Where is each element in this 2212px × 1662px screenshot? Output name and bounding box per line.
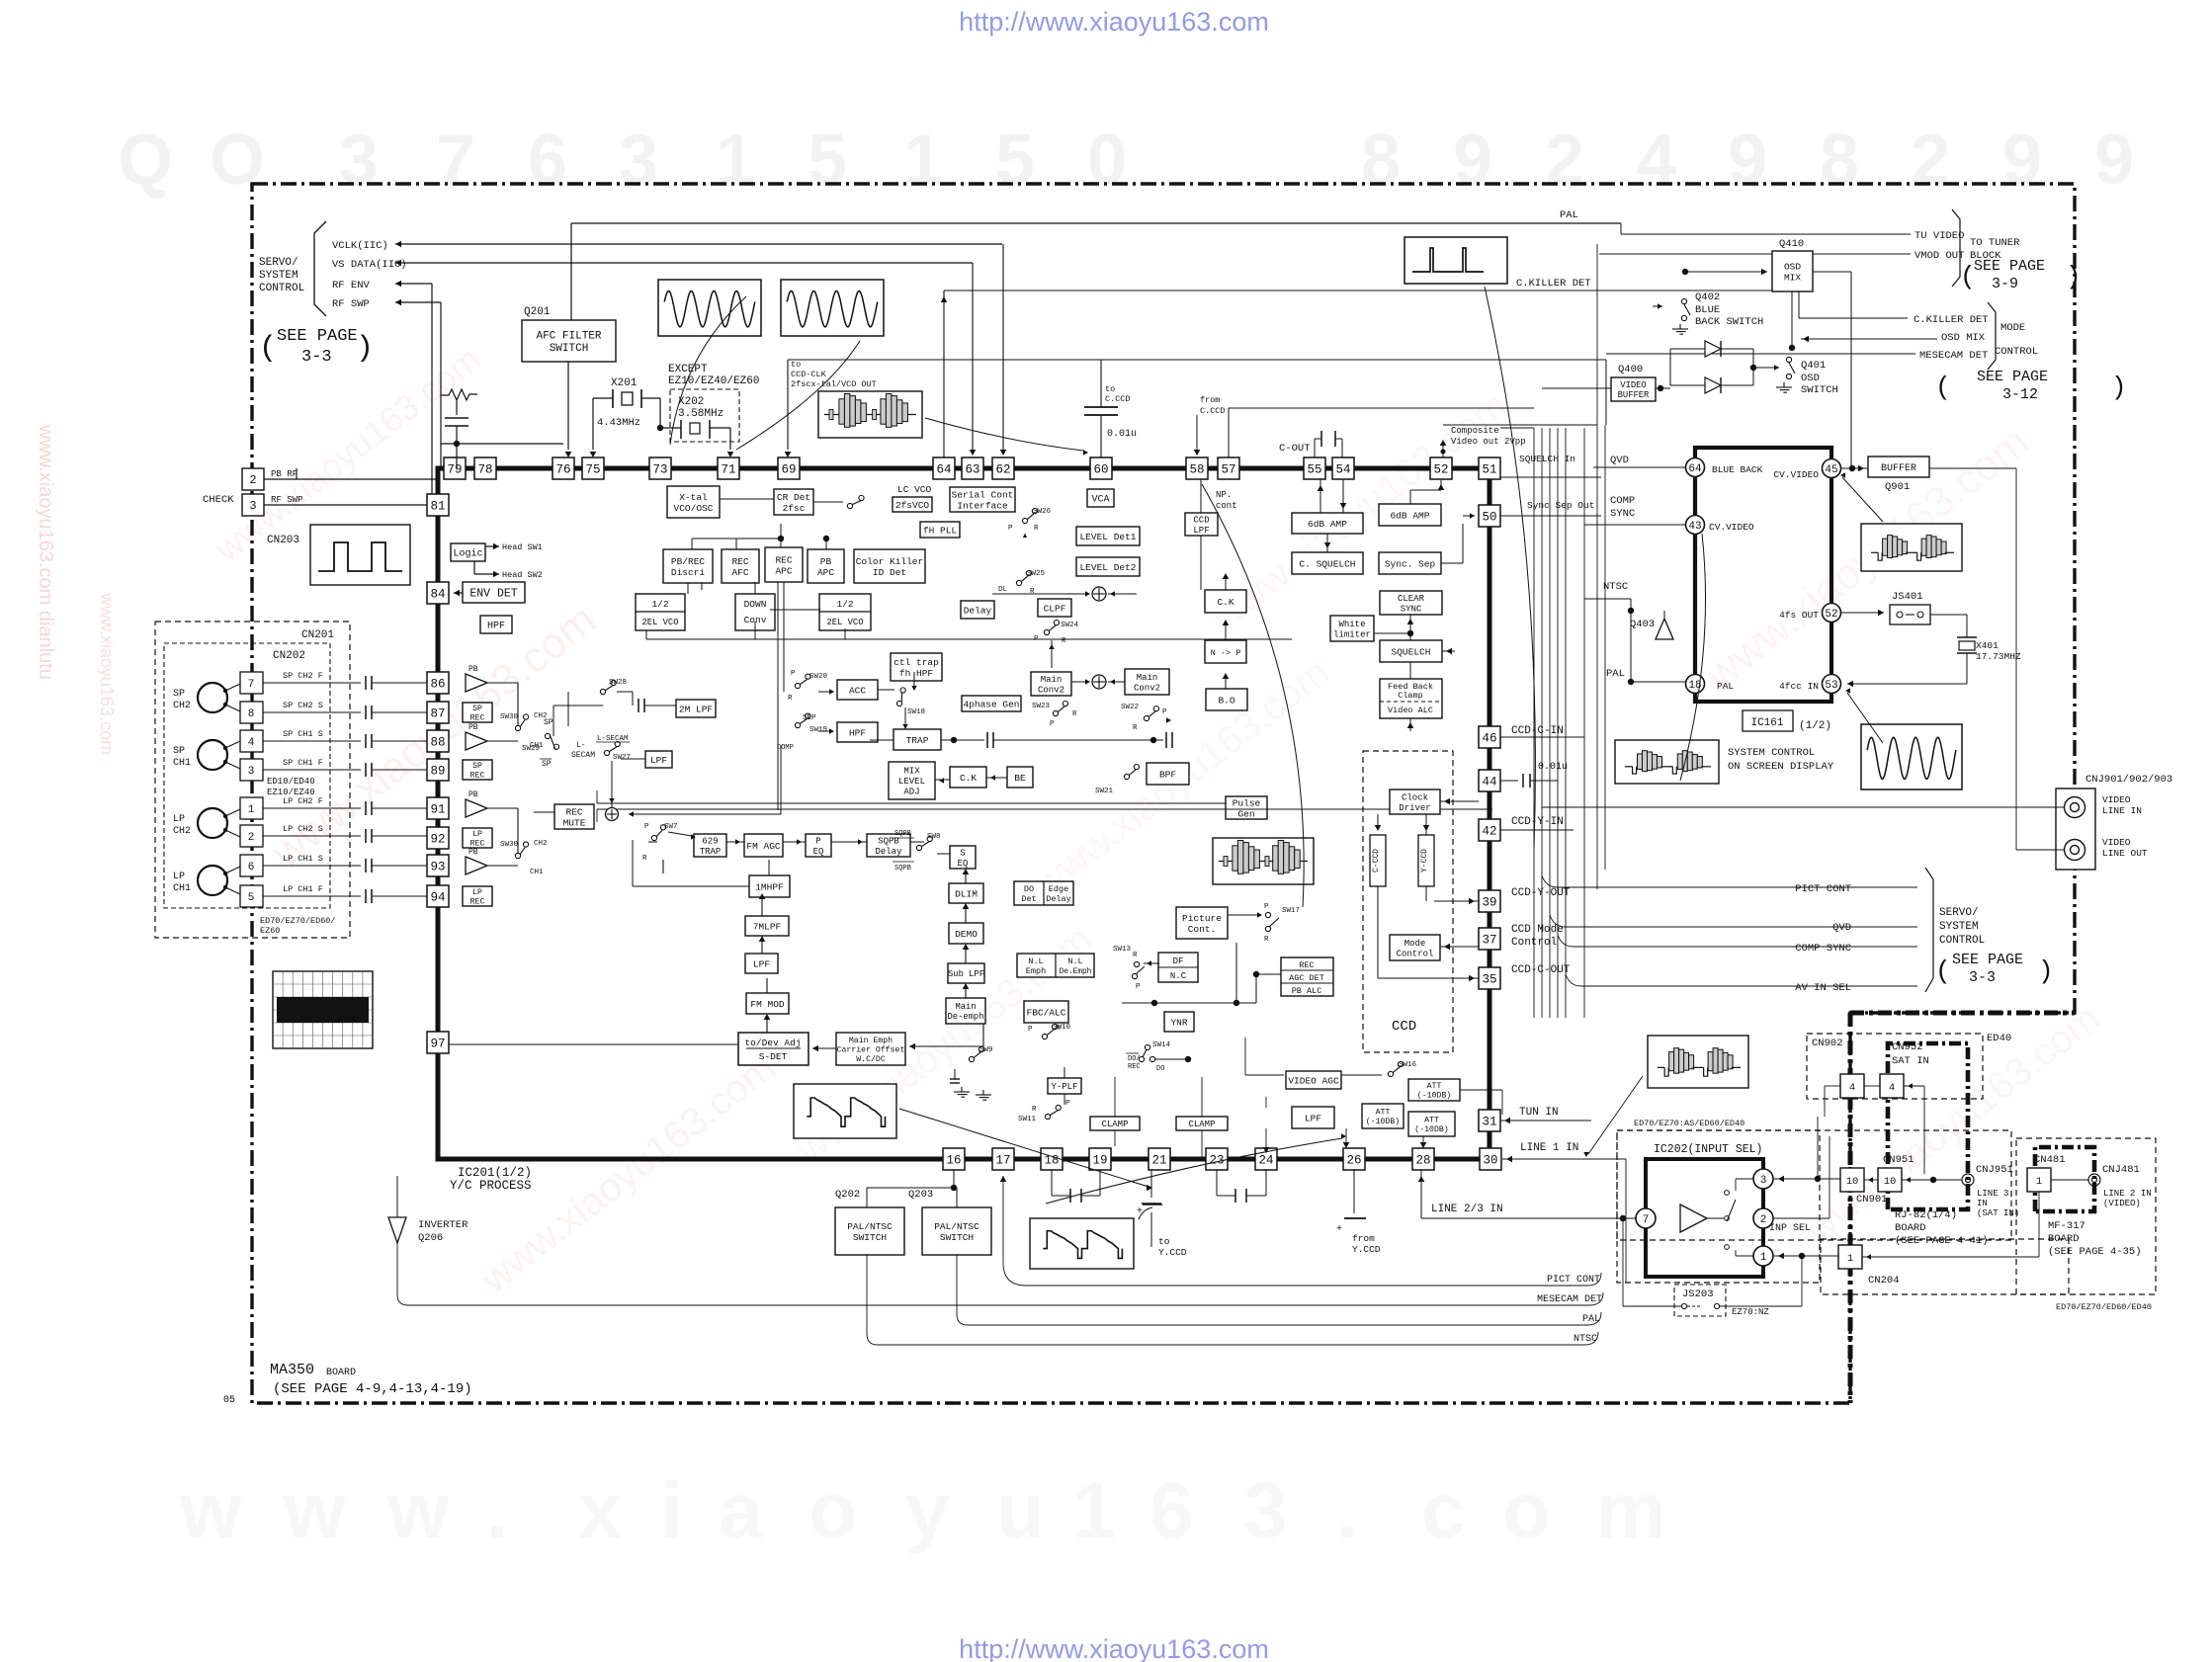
svg-text:P: P bbox=[644, 823, 649, 831]
svg-text:6dB AMP: 6dB AMP bbox=[1391, 510, 1430, 521]
svg-text:2M LPF: 2M LPF bbox=[679, 704, 714, 714]
svg-text:CCD: CCD bbox=[1392, 1019, 1416, 1035]
svg-text:BOARD: BOARD bbox=[2048, 1233, 2080, 1245]
svg-text:w: w bbox=[283, 1466, 346, 1554]
block ENV DET bbox=[463, 582, 525, 603]
svg-text:2: 2 bbox=[248, 832, 255, 844]
svg-text:SYSTEM CONTROL: SYSTEM CONTROL bbox=[1728, 747, 1815, 759]
conn pin 7 bbox=[240, 672, 263, 694]
svg-text:limiter: limiter bbox=[1333, 629, 1371, 639]
pin 23 bbox=[1206, 1148, 1228, 1170]
svg-text:R: R bbox=[788, 695, 793, 703]
svg-text:7: 7 bbox=[436, 121, 475, 200]
svg-text:Main Emph: Main Emph bbox=[849, 1036, 893, 1045]
svg-text:.: . bbox=[1336, 1466, 1358, 1554]
diagonal pointer to line1in bbox=[1588, 1076, 1643, 1154]
curved pointer to 71 bbox=[736, 341, 860, 450]
svg-text:SAT IN: SAT IN bbox=[1892, 1055, 1929, 1067]
block 1/2 2EL VCO b bbox=[819, 594, 871, 630]
block CCD LPF bbox=[1185, 513, 1218, 536]
svg-text:CH2: CH2 bbox=[534, 840, 548, 848]
block 629 TRAP bbox=[694, 834, 726, 857]
svg-text:to: to bbox=[1158, 1236, 1170, 1247]
svg-text:MESECAM DET: MESECAM DET bbox=[1919, 350, 1988, 362]
wire fhpll bbox=[910, 515, 912, 522]
svg-text:0.01u: 0.01u bbox=[1107, 429, 1137, 440]
svg-text:P: P bbox=[1065, 1100, 1070, 1108]
svg-text:79: 79 bbox=[447, 463, 462, 477]
wire row from X-tal to CR Det bbox=[720, 498, 774, 500]
svg-text:VIDEO: VIDEO bbox=[2102, 794, 2131, 805]
svg-text:SW21: SW21 bbox=[1095, 788, 1114, 795]
svg-text:86: 86 bbox=[430, 678, 445, 692]
block CLEAR SYNC bbox=[1380, 591, 1442, 615]
svg-text:CONTROL: CONTROL bbox=[1995, 346, 2038, 358]
svg-text:73: 73 bbox=[652, 463, 667, 477]
svg-text:42: 42 bbox=[1482, 825, 1496, 839]
svg-text:LC VCO: LC VCO bbox=[897, 484, 932, 495]
svg-text:CNJ901/902/903: CNJ901/902/903 bbox=[2085, 774, 2172, 786]
CN481 1 box bbox=[2027, 1168, 2051, 1192]
svg-text:Q: Q bbox=[118, 121, 173, 200]
block Main Conv2 2 bbox=[1125, 669, 1169, 695]
bracket servo/system control bbox=[314, 221, 326, 316]
svg-text:): ) bbox=[2111, 373, 2127, 402]
svg-text:1: 1 bbox=[1760, 1252, 1767, 1264]
wire sync sep to 50 bbox=[1441, 562, 1463, 564]
wires under 1/2 blocks bbox=[645, 630, 647, 639]
svg-text:SP: SP bbox=[544, 718, 553, 727]
switch SW24 bbox=[1044, 629, 1049, 634]
svg-text:LP CH1 F: LP CH1 F bbox=[283, 884, 323, 894]
block 1/2 2EL VCO a bbox=[636, 594, 685, 630]
block SP REC 1 bbox=[463, 703, 492, 722]
svg-text:ED40: ED40 bbox=[1987, 1033, 2011, 1044]
svg-text:LP: LP bbox=[472, 830, 482, 839]
svg-text:9: 9 bbox=[2094, 121, 2134, 200]
svg-text:RJ-82(1/4): RJ-82(1/4) bbox=[1895, 1209, 1957, 1221]
svg-text:3: 3 bbox=[339, 121, 379, 200]
pin 18 bbox=[1686, 675, 1705, 694]
block FM AGC bbox=[744, 834, 783, 857]
wire REC APC net bbox=[691, 539, 693, 549]
svg-text:CV.VIDEO: CV.VIDEO bbox=[1709, 522, 1754, 533]
svg-text:O: O bbox=[210, 121, 265, 200]
bar box W8 bbox=[1615, 740, 1719, 784]
svg-text:CN901: CN901 bbox=[1856, 1194, 1888, 1205]
svg-text:8: 8 bbox=[1361, 121, 1401, 200]
svg-text:REC: REC bbox=[470, 840, 485, 849]
svg-text:ED70/EZ70/ED60/: ED70/EZ70/ED60/ bbox=[260, 916, 336, 926]
diagonal from box to 21 bbox=[899, 1109, 1149, 1187]
pin 78 bbox=[474, 457, 496, 479]
svg-text:AFC: AFC bbox=[731, 567, 748, 578]
svg-text:Gen: Gen bbox=[1237, 808, 1254, 819]
svg-text:SW16: SW16 bbox=[1399, 1061, 1417, 1069]
svg-text:X401: X401 bbox=[1976, 640, 1999, 651]
wires Q202 Q203 to 16 bbox=[866, 1188, 868, 1207]
svg-text:CH1: CH1 bbox=[530, 869, 544, 876]
wire pin69 up bbox=[787, 360, 789, 450]
svg-text:(: ( bbox=[1935, 373, 1951, 402]
switch SW11 bbox=[1045, 1114, 1050, 1119]
svg-text:SQPB: SQPB bbox=[894, 865, 911, 873]
svg-text:TRAP: TRAP bbox=[906, 735, 929, 746]
svg-text:B.O: B.O bbox=[1218, 695, 1234, 706]
svg-text:C.KILLER DET: C.KILLER DET bbox=[1516, 278, 1591, 290]
pin 97 bbox=[427, 1032, 449, 1053]
svg-text:78: 78 bbox=[477, 463, 492, 477]
svg-text:SW13: SW13 bbox=[1113, 946, 1132, 954]
svg-text:4.43MHz: 4.43MHz bbox=[597, 417, 640, 429]
svg-text:CNJ481: CNJ481 bbox=[2102, 1164, 2140, 1176]
svg-text:94: 94 bbox=[430, 891, 445, 905]
switch SW23 bbox=[1053, 710, 1058, 715]
tun in wire from att bbox=[1460, 1089, 1502, 1091]
svg-text:9: 9 bbox=[2002, 121, 2042, 200]
long arc 1 bbox=[1202, 484, 1304, 907]
svg-text:5: 5 bbox=[808, 121, 847, 200]
switch SW10 bbox=[1042, 1034, 1047, 1039]
block ACC bbox=[837, 680, 878, 700]
block TRAP bbox=[893, 729, 941, 750]
block C.K 1 bbox=[950, 767, 986, 788]
svg-text:Q203: Q203 bbox=[908, 1189, 933, 1201]
svg-text:45: 45 bbox=[1825, 464, 1837, 476]
dashed box CN204/MF-317 bbox=[1821, 1239, 2069, 1294]
block NL Emph NL DeEmph bbox=[1017, 954, 1094, 977]
svg-text:93: 93 bbox=[430, 861, 445, 874]
svg-text:51: 51 bbox=[1482, 463, 1496, 477]
pin 62 bbox=[992, 457, 1014, 479]
svg-text:2fscx-tal/VCO OUT: 2fscx-tal/VCO OUT bbox=[791, 379, 877, 389]
long arc 2 bbox=[1485, 287, 1535, 848]
svg-text:Y.CCD: Y.CCD bbox=[1158, 1247, 1187, 1258]
svg-text:to: to bbox=[791, 360, 801, 370]
wire bundle vertical bbox=[1533, 428, 1535, 1018]
CN202 dashed bbox=[164, 643, 330, 908]
block ATT c bbox=[1408, 1112, 1455, 1136]
svg-text:PB ALC: PB ALC bbox=[1292, 986, 1322, 996]
svg-text:www.xiaoyu163.com dianlutu: www.xiaoyu163.com dianlutu bbox=[35, 424, 56, 680]
svg-text:NTSC: NTSC bbox=[1603, 581, 1628, 593]
curved pointer to 75 bbox=[670, 296, 746, 445]
svg-text:Mode: Mode bbox=[1404, 939, 1426, 949]
block LEVEL Det2 bbox=[1076, 557, 1140, 576]
switch SW9 bbox=[969, 1056, 974, 1061]
staircase box W13 bbox=[794, 1084, 896, 1138]
caps near sw9 bbox=[954, 1069, 956, 1079]
svg-text:ED70/EZ70/ED60/ED40: ED70/EZ70/ED60/ED40 bbox=[2056, 1302, 2152, 1312]
svg-text:LINE 3: LINE 3 bbox=[1977, 1189, 2008, 1199]
svg-text:PAL: PAL bbox=[1582, 1314, 1600, 1325]
svg-text:CONTROL: CONTROL bbox=[259, 283, 304, 294]
svg-text:64: 64 bbox=[1688, 463, 1702, 475]
svg-text:EXCEPT: EXCEPT bbox=[668, 364, 708, 375]
svg-text:LP: LP bbox=[173, 814, 185, 825]
svg-text:(-10DB): (-10DB) bbox=[1414, 1124, 1448, 1134]
svg-text:LP CH1 S: LP CH1 S bbox=[283, 854, 323, 864]
svg-text:50: 50 bbox=[1482, 511, 1496, 525]
svg-text:57: 57 bbox=[1221, 463, 1235, 477]
pin 44 bbox=[1479, 770, 1500, 791]
svg-text:SECAM: SECAM bbox=[571, 751, 595, 760]
block FBC/ALC bbox=[1024, 1001, 1068, 1023]
dashed box RJ-82 bbox=[1617, 1130, 2011, 1240]
svg-text:1: 1 bbox=[2036, 1176, 2042, 1188]
svg-text:1: 1 bbox=[1072, 1466, 1117, 1554]
svg-text:SP: SP bbox=[542, 760, 552, 769]
svg-text:IC202(INPUT SEL): IC202(INPUT SEL) bbox=[1654, 1143, 1762, 1156]
svg-text:10: 10 bbox=[1846, 1176, 1859, 1188]
pin 3 bbox=[1753, 1169, 1773, 1189]
wire row acc hpf bbox=[878, 689, 894, 691]
svg-text:BUFFER: BUFFER bbox=[1618, 390, 1650, 400]
svg-text:): ) bbox=[2038, 956, 2054, 986]
svg-text:L-: L- bbox=[576, 741, 586, 750]
svg-text:CCD-Y-IN: CCD-Y-IN bbox=[1511, 816, 1564, 828]
svg-text:SW26: SW26 bbox=[1033, 508, 1052, 516]
svg-text:ED70/EZ70:AS/ED60/ED40: ED70/EZ70:AS/ED60/ED40 bbox=[1634, 1119, 1744, 1128]
svg-text:ED10/ED40: ED10/ED40 bbox=[267, 777, 315, 787]
svg-text:ATT: ATT bbox=[1424, 1117, 1439, 1125]
svg-text:CLAMP: CLAMP bbox=[1188, 1120, 1215, 1129]
block X-tal VCO/OSC bbox=[667, 486, 720, 518]
svg-text:SW29: SW29 bbox=[522, 745, 540, 753]
svg-text:LP: LP bbox=[173, 872, 185, 882]
svg-text:AFC FILTER: AFC FILTER bbox=[536, 330, 601, 342]
svg-text:BACK SWITCH: BACK SWITCH bbox=[1695, 316, 1763, 328]
svg-text:x: x bbox=[578, 1466, 623, 1554]
svg-text:BPF: BPF bbox=[1159, 769, 1176, 780]
svg-text:ENV DET: ENV DET bbox=[469, 588, 517, 601]
svg-text:SYNC: SYNC bbox=[1401, 604, 1422, 614]
svg-text:LEVEL: LEVEL bbox=[898, 777, 925, 787]
svg-text:(SEE PAGE 4-35): (SEE PAGE 4-35) bbox=[2048, 1246, 2142, 1258]
arc to pin 26 bbox=[1046, 1138, 1342, 1204]
pin 92 bbox=[427, 827, 449, 849]
svg-text:SP: SP bbox=[173, 746, 185, 757]
svg-text:CCD-C-IN: CCD-C-IN bbox=[1511, 725, 1564, 737]
diodes bbox=[1705, 341, 1721, 357]
block BUFFER bbox=[1868, 457, 1929, 477]
wire VS DATA bbox=[395, 262, 973, 264]
svg-text:SW17: SW17 bbox=[1282, 907, 1300, 915]
Y-CCD vertical bbox=[1418, 835, 1434, 886]
svg-text:Q402: Q402 bbox=[1695, 291, 1720, 303]
wires PB out bbox=[487, 682, 518, 684]
svg-text:Main: Main bbox=[955, 1002, 976, 1012]
svg-text:DO/: DO/ bbox=[1128, 1055, 1141, 1063]
capacitor bbox=[445, 417, 468, 419]
saw filter box 1 bbox=[818, 391, 922, 438]
svg-text:REC: REC bbox=[470, 714, 485, 723]
CNJ951 bbox=[1962, 1174, 1974, 1186]
svg-text:PAL: PAL bbox=[1717, 681, 1734, 692]
svg-text:TUN IN: TUN IN bbox=[1519, 1107, 1559, 1119]
summing node 2 bbox=[1092, 675, 1106, 689]
svg-text:CH2: CH2 bbox=[173, 701, 191, 711]
block White limiter bbox=[1330, 616, 1374, 641]
svg-text:(-10DB): (-10DB) bbox=[1366, 1117, 1400, 1126]
svg-text:1: 1 bbox=[716, 121, 755, 200]
svg-text:4phase Gen: 4phase Gen bbox=[963, 699, 1019, 709]
svg-text:S: S bbox=[960, 848, 965, 858]
svg-text:N.L: N.L bbox=[1067, 956, 1082, 966]
pin 76 bbox=[553, 457, 574, 479]
svg-text:VIDEO: VIDEO bbox=[1620, 380, 1646, 390]
svg-text:REC: REC bbox=[1128, 1063, 1141, 1071]
svg-text:43: 43 bbox=[1688, 521, 1701, 533]
summing node 1 bbox=[1092, 587, 1106, 601]
Q401 switch bbox=[1786, 357, 1791, 362]
wires clamps bbox=[1114, 1130, 1116, 1146]
LPF wire bbox=[1265, 1128, 1267, 1149]
block PB APC bbox=[808, 549, 844, 583]
svg-text:VS DATA(IIC): VS DATA(IIC) bbox=[332, 259, 407, 271]
svg-text:CV.VIDEO: CV.VIDEO bbox=[1773, 469, 1819, 480]
svg-text:OSD MIX: OSD MIX bbox=[1941, 332, 1986, 344]
svg-text:(SAT IN): (SAT IN) bbox=[1977, 1208, 2019, 1218]
svg-text:7MLPF: 7MLPF bbox=[753, 921, 782, 932]
block fH PLL bbox=[920, 522, 960, 538]
svg-text:Sync. Sep: Sync. Sep bbox=[1385, 558, 1436, 569]
svg-text:TRAP: TRAP bbox=[700, 847, 722, 857]
pin 19 bbox=[1089, 1148, 1111, 1170]
block VCA bbox=[1087, 489, 1114, 507]
saw filter box 2 bbox=[1213, 838, 1314, 884]
top right wires bbox=[1620, 223, 1622, 234]
block ATT b bbox=[1362, 1104, 1404, 1128]
svg-text:CN203: CN203 bbox=[267, 535, 299, 546]
block SQPB Delay bbox=[867, 834, 910, 857]
svg-text:EZ10/EZ40/EZ60: EZ10/EZ40/EZ60 bbox=[668, 375, 759, 387]
wire pin64 to ckiller bbox=[944, 290, 1799, 291]
svg-text:SW7: SW7 bbox=[664, 823, 678, 831]
svg-text:ID Det: ID Det bbox=[873, 567, 906, 578]
block Main Emph Carrier Offset bbox=[836, 1033, 905, 1065]
svg-text:AV IN SEL: AV IN SEL bbox=[1795, 982, 1851, 994]
check pins bbox=[242, 468, 264, 490]
svg-text:1: 1 bbox=[903, 121, 943, 200]
svg-text:COMP SYNC: COMP SYNC bbox=[1795, 943, 1851, 955]
mode bracket bbox=[1988, 302, 1996, 370]
SW14 bbox=[1145, 1044, 1149, 1049]
svg-text:VIDEO AGC: VIDEO AGC bbox=[1288, 1075, 1339, 1086]
svg-text:9: 9 bbox=[1728, 121, 1767, 200]
clear sync chain bbox=[1409, 615, 1411, 628]
pin 79 bbox=[444, 457, 466, 479]
svg-text:PAL/NTSC: PAL/NTSC bbox=[934, 1221, 979, 1232]
IC202 bbox=[1646, 1159, 1763, 1277]
svg-text:m: m bbox=[1595, 1466, 1665, 1554]
block LPF3 bbox=[645, 751, 672, 768]
svg-text:De.Emph: De.Emph bbox=[1060, 968, 1092, 976]
svg-text:+: + bbox=[1137, 1206, 1143, 1217]
svg-text:SW9: SW9 bbox=[979, 1046, 993, 1054]
svg-text:SW28: SW28 bbox=[609, 679, 627, 687]
svg-text:CLAMP: CLAMP bbox=[1101, 1120, 1128, 1129]
svg-text:28: 28 bbox=[1415, 1154, 1430, 1168]
block Mode Control bbox=[1390, 935, 1440, 960]
svg-text:4fs OUT: 4fs OUT bbox=[1779, 610, 1819, 621]
block Logic bbox=[451, 543, 485, 561]
svg-text:3: 3 bbox=[248, 766, 255, 778]
svg-text:CN952: CN952 bbox=[1892, 1041, 1923, 1053]
svg-text:DO: DO bbox=[1024, 884, 1034, 894]
pin 16 bbox=[943, 1148, 965, 1170]
svg-text:Logic: Logic bbox=[453, 548, 482, 560]
svg-text:SEE PAGE: SEE PAGE bbox=[1974, 258, 2045, 275]
CN201 dashed bbox=[155, 622, 350, 938]
svg-text:SP CH1 S: SP CH1 S bbox=[283, 729, 323, 739]
svg-text:R: R bbox=[1034, 525, 1039, 533]
pin 24 bbox=[1255, 1148, 1277, 1170]
svg-text:R: R bbox=[1133, 724, 1138, 732]
block LP REC 1 bbox=[463, 828, 492, 848]
svg-text:35: 35 bbox=[1482, 973, 1496, 987]
pin 84 bbox=[427, 582, 449, 604]
block REC AGC DET PB ALC bbox=[1281, 957, 1333, 996]
svg-text:SW8: SW8 bbox=[927, 833, 941, 841]
block 6dB AMP b bbox=[1379, 504, 1441, 526]
svg-text:W.C/DC: W.C/DC bbox=[856, 1054, 886, 1064]
svg-text:CN951: CN951 bbox=[1883, 1154, 1914, 1166]
svg-text:FM MOD: FM MOD bbox=[750, 999, 785, 1010]
pin 93 bbox=[427, 855, 449, 876]
svg-text:PB: PB bbox=[468, 723, 478, 732]
svg-text:84: 84 bbox=[430, 588, 445, 602]
svg-text:DOWN: DOWN bbox=[744, 599, 767, 610]
block PAL/NTSC SWITCH b bbox=[922, 1207, 991, 1255]
svg-text:Y-PLF: Y-PLF bbox=[1051, 1082, 1077, 1092]
svg-text:QVD: QVD bbox=[1610, 455, 1629, 466]
block CLAMP b bbox=[1176, 1117, 1228, 1130]
svg-text:P: P bbox=[1264, 903, 1269, 911]
svg-text:PB: PB bbox=[820, 556, 832, 567]
svg-text:2: 2 bbox=[1911, 121, 1950, 200]
svg-text:2EL VCO: 2EL VCO bbox=[827, 618, 864, 627]
svg-text:REC: REC bbox=[470, 898, 485, 907]
Y-PLF wires bbox=[1063, 1094, 1065, 1105]
svg-text:30: 30 bbox=[1483, 1154, 1497, 1168]
svg-text:SW30: SW30 bbox=[500, 841, 519, 849]
svg-text:YNR: YNR bbox=[1170, 1017, 1187, 1028]
svg-text:ctl trap: ctl trap bbox=[893, 657, 939, 668]
svg-text:69: 69 bbox=[781, 463, 796, 477]
svg-text:C.K: C.K bbox=[960, 773, 977, 784]
wire from check up bbox=[296, 468, 298, 479]
svg-text:53: 53 bbox=[1825, 680, 1837, 692]
svg-text:3.58MHz: 3.58MHz bbox=[678, 408, 723, 420]
pin 21 bbox=[1149, 1148, 1170, 1170]
svg-text:2: 2 bbox=[1545, 121, 1584, 200]
svg-text:CCD: CCD bbox=[1193, 515, 1209, 525]
svg-text:.: . bbox=[486, 1466, 508, 1554]
pin 87 bbox=[427, 702, 449, 723]
wire 97 to devadj bbox=[449, 1043, 738, 1045]
IC161 label bbox=[1743, 710, 1793, 731]
svg-text:CONTROL: CONTROL bbox=[1939, 935, 1985, 947]
svg-text:N.C: N.C bbox=[1170, 971, 1187, 981]
svg-text:CCD-C-OUT: CCD-C-OUT bbox=[1511, 964, 1571, 976]
svg-text:Interface: Interface bbox=[957, 500, 1008, 511]
pin 31 bbox=[1479, 1110, 1500, 1131]
switch SW8 bbox=[916, 845, 921, 850]
svg-text:Video out 2Vpp: Video out 2Vpp bbox=[1451, 437, 1526, 447]
svg-text:54: 54 bbox=[1335, 463, 1350, 477]
block Feed Back Clamp / Video ALC bbox=[1380, 679, 1442, 718]
